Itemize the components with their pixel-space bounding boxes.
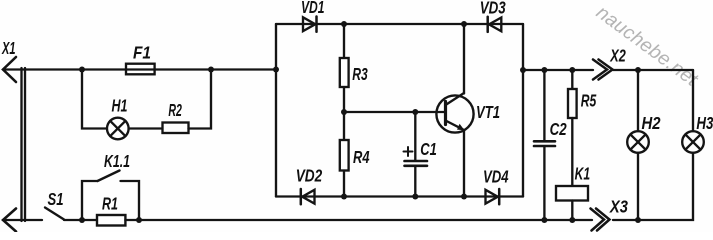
node H2 bottom — [635, 217, 641, 223]
wire R2 riser up — [189, 70, 212, 129]
node at bridge input — [273, 67, 279, 73]
svg-text:R3: R3 — [352, 64, 368, 84]
svg-text:R1: R1 — [102, 194, 118, 214]
capacitor C1 — [404, 139, 437, 166]
node at R2 branch — [208, 67, 214, 73]
svg-text:X1: X1 — [1, 38, 15, 58]
svg-text:F1: F1 — [133, 43, 151, 63]
svg-text:R5: R5 — [581, 91, 597, 111]
wire H1 to R2 — [129, 127, 163, 129]
wire R3 bottom lead — [343, 87, 345, 112]
svg-text:VD3: VD3 — [480, 0, 506, 17]
node C2 top — [541, 67, 547, 73]
node C1 bottom — [412, 194, 418, 200]
wire H2 bottom lead — [637, 153, 639, 220]
resistor R3 — [340, 58, 368, 87]
wire H1 branch left riser — [82, 70, 107, 129]
svg-text:C1: C1 — [420, 139, 437, 159]
resistor R1 — [97, 194, 125, 226]
lamp H3 — [682, 113, 713, 153]
wire base — [344, 111, 445, 113]
lamp H2 — [627, 113, 661, 153]
wire R5 top lead — [571, 70, 573, 89]
connector X1 — [1, 38, 25, 232]
svg-text:X3: X3 — [609, 197, 628, 217]
node base wire left — [341, 109, 347, 115]
wire top-left — [3, 68, 276, 70]
svg-text:R2: R2 — [168, 100, 182, 120]
bridge top wire — [276, 23, 523, 25]
wire R4 top lead — [343, 112, 345, 140]
connector X3 — [591, 197, 629, 231]
svg-text:S1: S1 — [48, 189, 64, 209]
wire R5 to K1 — [571, 118, 573, 186]
relay coil K1 — [556, 164, 590, 201]
wire C2 bottom lead — [543, 147, 545, 221]
wire emitter lead — [463, 130, 465, 197]
capacitor C2 — [534, 119, 567, 146]
connector X2 — [593, 46, 626, 80]
fuse F1 — [126, 43, 155, 75]
svg-text:VD2: VD2 — [296, 166, 323, 186]
svg-text:H2: H2 — [642, 113, 661, 133]
wire X2 to right — [613, 69, 693, 71]
svg-text:R4: R4 — [353, 147, 370, 167]
wire bottom main — [125, 219, 592, 221]
bridge bottom wire — [276, 195, 523, 197]
svg-text:H1: H1 — [112, 96, 128, 116]
node K1.1 right — [136, 217, 142, 223]
resistor R5 — [568, 89, 596, 118]
wire collector lead — [463, 24, 465, 94]
node at H1 branch — [79, 67, 85, 73]
svg-text:C2: C2 — [550, 119, 567, 139]
node K1 bottom — [569, 217, 575, 223]
diode VD1 — [301, 0, 325, 32]
wire H3 top riser — [692, 70, 694, 131]
diode VD2 — [296, 166, 323, 205]
node H2 top — [635, 67, 641, 73]
diode VD4 — [483, 167, 509, 205]
relay contact K1.1 — [82, 151, 139, 220]
transistor VT1 — [436, 93, 500, 133]
wire R4 bottom lead — [343, 171, 345, 197]
wire H2 top lead — [637, 70, 639, 131]
svg-text:H3: H3 — [696, 113, 713, 133]
node output at bridge — [520, 67, 526, 73]
node collector top — [461, 21, 467, 27]
svg-text:VD4: VD4 — [483, 167, 509, 187]
lamp H1 — [107, 96, 129, 140]
wire C1 top lead — [414, 112, 416, 161]
wire R3 top lead — [343, 24, 345, 58]
node R4 bottom — [341, 194, 347, 200]
node C2 bottom — [541, 217, 547, 223]
resistor R2 — [163, 100, 189, 133]
wire S1 to R1 — [64, 219, 97, 221]
resistor R4 — [340, 140, 370, 171]
node R5 top — [569, 67, 575, 73]
bridge right edge — [522, 24, 524, 197]
wire bottom from X1 — [3, 219, 42, 221]
wire K1 bottom lead — [571, 201, 573, 221]
node K1.1 left — [79, 217, 85, 223]
switch S1 — [45, 189, 64, 220]
svg-text:K1: K1 — [575, 164, 591, 184]
svg-text:VT1: VT1 — [476, 102, 500, 122]
svg-text:VD1: VD1 — [301, 0, 325, 17]
wire C2 top lead — [543, 70, 545, 141]
bridge left edge — [275, 24, 277, 197]
diode VD3 — [480, 0, 506, 32]
wire H3 bottom riser — [613, 153, 693, 220]
node emitter bottom — [461, 194, 467, 200]
node R3 top — [341, 21, 347, 27]
wire output right — [523, 69, 593, 71]
wire C1 bottom lead — [414, 166, 416, 197]
node C1 top — [412, 109, 418, 115]
svg-text:K1.1: K1.1 — [104, 151, 130, 171]
svg-text:X2: X2 — [610, 46, 626, 66]
